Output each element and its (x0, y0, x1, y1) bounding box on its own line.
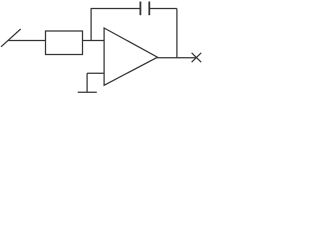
capacitor right plate (148, 2, 150, 16)
ground bar (78, 91, 97, 93)
output terminal x-mark arm 1 (192, 53, 202, 62)
op-amp (triangle) (104, 28, 157, 85)
wire op-amp output (157, 57, 196, 59)
wire junction vertical to feedback (90, 9, 92, 41)
wire feedback top left (91, 8, 141, 10)
resistor (box) (46, 31, 83, 55)
wire feedback top right (149, 8, 177, 10)
output terminal x-mark arm 2 (192, 53, 202, 62)
input terminal (slash) (1, 29, 21, 47)
wire non-inverting input stub (87, 72, 104, 74)
wire input to resistor (9, 40, 46, 42)
ground stem (86, 73, 88, 92)
wire feedback right vertical (176, 9, 178, 58)
capacitor left plate (139, 2, 141, 16)
wire resistor to inverting input (83, 40, 105, 42)
